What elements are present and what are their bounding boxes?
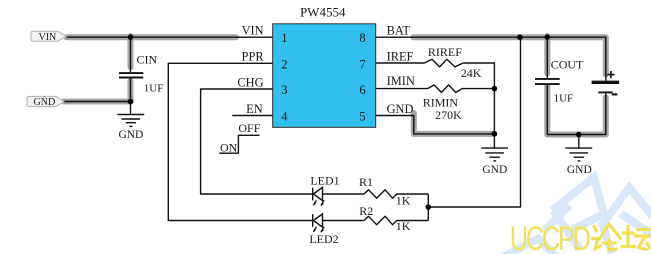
svg-text:VIN: VIN — [242, 24, 264, 38]
svg-text:GND: GND — [34, 97, 56, 108]
svg-text:LED2: LED2 — [309, 232, 338, 246]
svg-text:24K: 24K — [461, 66, 482, 80]
svg-text:OFF: OFF — [238, 121, 260, 135]
svg-text:EN: EN — [246, 102, 263, 116]
svg-text:R1: R1 — [359, 175, 373, 189]
svg-text:1UF: 1UF — [144, 83, 164, 95]
svg-text:4: 4 — [281, 110, 288, 124]
svg-text:R2: R2 — [359, 204, 373, 218]
svg-text:3: 3 — [281, 83, 287, 97]
svg-text:BAT: BAT — [387, 24, 411, 38]
svg-text:PW4554: PW4554 — [300, 4, 346, 19]
svg-text:6: 6 — [359, 83, 365, 97]
svg-text:CIN: CIN — [137, 52, 158, 66]
svg-text:COUT: COUT — [551, 57, 584, 71]
svg-text:1: 1 — [281, 31, 287, 45]
svg-text:RIMIN: RIMIN — [423, 95, 459, 109]
svg-text:IREF: IREF — [387, 49, 414, 63]
svg-text:PPR: PPR — [242, 50, 265, 64]
svg-text:RIREF: RIREF — [428, 45, 462, 59]
svg-text:2: 2 — [281, 57, 287, 71]
svg-text:GND: GND — [387, 102, 414, 116]
svg-text:UCCPD: UCCPD — [510, 221, 591, 254]
svg-text:GND: GND — [118, 129, 143, 141]
svg-text:IMIN: IMIN — [387, 74, 415, 88]
svg-text:1UF: 1UF — [554, 93, 574, 105]
svg-text:GND: GND — [567, 164, 592, 176]
svg-text:1K: 1K — [396, 193, 411, 207]
svg-text:VIN: VIN — [39, 32, 57, 43]
svg-text:CHG: CHG — [237, 75, 263, 89]
svg-text:1K: 1K — [396, 219, 411, 233]
svg-text:ON: ON — [220, 140, 238, 154]
svg-text:LED1: LED1 — [310, 173, 339, 187]
svg-text:270K: 270K — [435, 108, 462, 122]
svg-text:8: 8 — [359, 31, 365, 45]
svg-text:GND: GND — [482, 164, 507, 176]
svg-text:5: 5 — [359, 110, 365, 124]
svg-text:7: 7 — [359, 57, 365, 71]
